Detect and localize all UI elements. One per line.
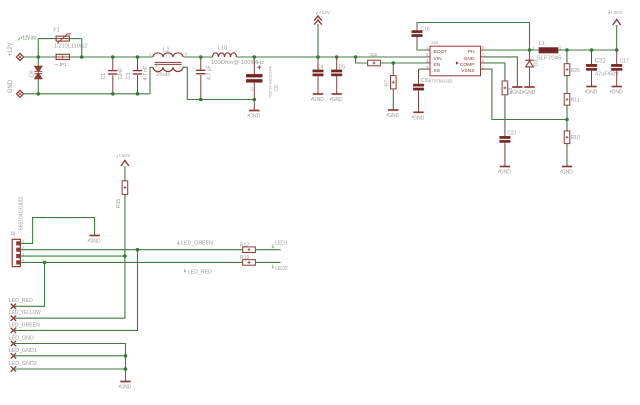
wire GND rail	[24, 93, 150, 95]
diode D3 catch	[525, 50, 539, 87]
svg-text:4.7 nF: 4.7 nF	[143, 66, 149, 81]
svg-text:GND: GND	[89, 239, 101, 245]
capacitor C5	[331, 57, 345, 94]
wire R26 to R11	[566, 76, 568, 94]
wire LED_RED branch	[13, 262, 44, 306]
svg-text:PH: PH	[468, 49, 475, 55]
ground C10	[412, 112, 425, 121]
wire fuse branch left leg	[38, 39, 56, 57]
junction C2 bottom	[199, 98, 203, 102]
junction C1 bottom	[111, 92, 115, 96]
svg-text:R10: R10	[571, 135, 580, 141]
IC U3 TPS54231D buck regulator	[426, 40, 486, 84]
capacitor C2 4.7uF	[196, 57, 212, 100]
no-connect LED_GREEN	[9, 323, 40, 334]
svg-text:C22: C22	[595, 58, 607, 64]
ground C21	[498, 167, 511, 176]
svg-text:GND: GND	[249, 114, 261, 120]
svg-text:C3: C3	[126, 73, 132, 80]
svg-text:EN: EN	[434, 62, 441, 68]
wire R4 to EN pin	[380, 62, 425, 64]
svg-text:LED_YELLOW: LED_YELLOW	[9, 310, 42, 316]
svg-text:C5: C5	[339, 64, 346, 70]
wire SS pin to C10	[419, 68, 426, 70]
net label LED_GREEN	[177, 241, 213, 247]
junction C17 top	[615, 48, 619, 52]
svg-text:L2: L2	[163, 48, 169, 54]
ground J2 pin1	[88, 236, 101, 245]
svg-text:100Ohm@ 100 MHz: 100Ohm@ 100 MHz	[211, 60, 264, 66]
svg-text:GND: GND	[524, 90, 536, 96]
resistor R15	[116, 181, 128, 256]
capacitor C1 22nF	[101, 57, 124, 94]
svg-text:GND: GND	[612, 90, 624, 96]
svg-text:22nF: 22nF	[118, 68, 124, 80]
wire LED_GREEN branch	[13, 250, 137, 331]
wire LED_GND row	[13, 344, 125, 382]
svg-text:SS: SS	[434, 68, 441, 74]
resistor R26	[564, 50, 580, 76]
supply +3V3 arrow pullup	[117, 153, 130, 181]
wire PH to L1	[485, 49, 539, 51]
junction LED_RED branch	[43, 261, 47, 265]
resistor R11	[564, 93, 580, 119]
junction D9 bottom	[37, 92, 41, 96]
svg-text:D9: D9	[29, 70, 35, 77]
ground C6	[248, 111, 261, 120]
junction C4 top	[316, 55, 320, 59]
svg-text:LED_GND: LED_GND	[9, 336, 34, 342]
svg-text:LED_GND2: LED_GND2	[9, 361, 37, 367]
junction fuse right	[80, 55, 84, 59]
net label +12V int	[18, 36, 36, 42]
svg-text:GND: GND	[586, 90, 598, 96]
resistor R8	[502, 81, 514, 136]
junction R15 node	[123, 254, 127, 258]
no-connect LED_GND1	[9, 348, 37, 359]
wire VSNS feedback	[485, 69, 567, 119]
ground R7	[387, 110, 400, 119]
wire COMP pin to R8	[485, 63, 505, 81]
svg-text:LED_RED: LED_RED	[9, 298, 33, 304]
svg-text:25uH: 25uH	[156, 72, 170, 78]
wire LED_GND1 row	[13, 355, 125, 357]
svg-text:R7: R7	[384, 80, 390, 87]
wire ground return	[187, 99, 254, 101]
svg-text:BOOT: BOOT	[434, 49, 448, 55]
junction C6 return	[253, 98, 257, 102]
junction LED_GND1	[124, 354, 128, 358]
svg-text:U3: U3	[432, 40, 438, 46]
resistor R4	[368, 53, 381, 66]
wire LED_GND2 row	[13, 368, 125, 370]
svg-text:LED_GREEN: LED_GREEN	[9, 323, 40, 329]
svg-text:R8: R8	[508, 87, 514, 94]
capacitor C6 tantalum	[246, 57, 279, 111]
transient diode D9	[29, 57, 42, 94]
junction C5 top	[335, 55, 339, 59]
wire L2 pin3 down to return	[183, 67, 187, 99]
svg-text:GND: GND	[413, 116, 425, 122]
wire LED_GREEN row	[20, 249, 242, 251]
wire J2 pin3 row	[20, 255, 125, 257]
ground IC GND pin	[511, 87, 524, 96]
ground C4	[311, 94, 324, 103]
svg-text:— JP1: — JP1	[54, 62, 66, 67]
net flag LED2	[272, 264, 288, 271]
svg-text:GND: GND	[500, 170, 512, 176]
resistor R17	[240, 242, 255, 252]
wire rail L10 to IC	[237, 56, 426, 58]
wire LED_YELLOW branch	[13, 256, 125, 318]
wire fuse branch right leg	[69, 39, 81, 57]
no-connect LED_GND2	[9, 361, 37, 372]
no-connect LED_YELLOW	[9, 310, 42, 321]
svg-text:LED_GREEN: LED_GREEN	[181, 241, 213, 247]
junction C6 top	[253, 55, 257, 59]
inductor L10 ferrite bead	[211, 45, 264, 66]
no-connect LED_RED	[9, 298, 33, 309]
junction C1 top	[111, 55, 115, 59]
svg-text:LED2: LED2	[275, 266, 288, 272]
svg-text:C17: C17	[620, 58, 629, 64]
svg-text:T520 SF M020C004D: T520 SF M020C004D	[267, 66, 272, 98]
junction output R26	[565, 48, 569, 52]
svg-text:+3V3: +3V3	[610, 10, 622, 16]
ground C17	[610, 87, 623, 96]
wire +12V rail left	[24, 56, 57, 58]
svg-text:R17: R17	[240, 242, 250, 248]
svg-text:R19: R19	[240, 255, 250, 261]
svg-text:VIN: VIN	[434, 56, 443, 62]
svg-text:+3V3: +3V3	[119, 153, 131, 159]
capacitor C3 4.7nF	[126, 57, 149, 94]
svg-text:R15: R15	[116, 199, 122, 208]
node +12V input pin	[8, 42, 24, 60]
capacitor C16 boot	[412, 26, 430, 44]
svg-text:GND: GND	[8, 79, 14, 93]
junction EN branch	[354, 55, 358, 59]
connector J2 665104131822	[11, 197, 25, 267]
svg-text:GND: GND	[313, 97, 325, 103]
svg-text:C1: C1	[101, 73, 107, 80]
svg-text:C21: C21	[507, 131, 516, 137]
svg-text:LED1: LED1	[275, 240, 288, 246]
resistor R7	[384, 63, 396, 110]
svg-text:GND: GND	[332, 97, 344, 103]
svg-text:4.7 µF: 4.7 µF	[206, 65, 212, 80]
resistor R10	[564, 120, 580, 167]
ground D3	[523, 87, 536, 96]
svg-text:J2: J2	[11, 231, 17, 237]
svg-text:L10: L10	[218, 45, 228, 51]
svg-text:LED_GND1: LED_GND1	[9, 348, 37, 354]
wire R19 to LED2	[255, 261, 280, 263]
svg-text:GND: GND	[120, 385, 132, 391]
svg-text:47uF/50V: 47uF/50V	[595, 72, 619, 78]
fuse F1 PTC 1.210L110/12	[53, 27, 87, 49]
junction feedback node	[565, 118, 569, 122]
svg-text:C6: C6	[274, 85, 280, 92]
resistor R19	[240, 255, 255, 265]
svg-text:GND: GND	[464, 56, 475, 62]
junction LED_GREEN branch	[136, 248, 140, 252]
svg-text:+12V int: +12V int	[20, 36, 36, 42]
svg-text:SLF7045: SLF7045	[537, 55, 562, 61]
ground R10	[560, 167, 573, 176]
svg-text:665104131822: 665104131822	[18, 197, 24, 230]
wire EN branch	[356, 57, 368, 63]
wire R17 to LED1	[255, 249, 280, 251]
svg-text:COMP: COMP	[460, 62, 475, 68]
junction C3 top	[136, 55, 140, 59]
junction C2 top	[199, 55, 203, 59]
inductor L2 25uH common-mode choke	[149, 48, 188, 78]
svg-text:C10: C10	[421, 78, 430, 84]
wire L2 pin2 to GND rail	[150, 67, 153, 94]
ground LED_GND	[119, 382, 132, 391]
supply +3V3 arrow output	[609, 10, 622, 50]
node GND input pin	[8, 79, 24, 97]
svg-text:1.210L110/12: 1.210L110/12	[54, 44, 88, 50]
inductor L1 SLF7045	[532, 41, 562, 61]
svg-text:R11: R11	[571, 98, 580, 104]
net flag LED1	[272, 240, 288, 248]
net label LED_RED	[184, 268, 212, 275]
svg-text:R4: R4	[370, 53, 377, 59]
junction C22 top	[590, 48, 594, 52]
svg-text:+12V: +12V	[319, 10, 331, 16]
svg-text:LED_RED: LED_RED	[188, 269, 212, 275]
supply +12V arrow	[314, 10, 331, 57]
junction fuse left	[37, 55, 41, 59]
wire C16 to PH node	[417, 23, 530, 51]
junction C3 bottom	[136, 92, 140, 96]
wire C16 to BOOT pin	[417, 44, 426, 50]
wire +12V rail mid	[69, 56, 152, 58]
junction PH node	[528, 48, 532, 52]
svg-text:C16: C16	[421, 27, 430, 33]
capacitor C22 47uF/50V	[586, 50, 619, 87]
capacitor C10 soft-start	[413, 69, 430, 112]
svg-text:GND: GND	[388, 113, 400, 119]
ground C22	[585, 87, 598, 96]
capacitor C17	[611, 50, 629, 87]
svg-text:R26: R26	[571, 68, 580, 74]
no-connect LED_GND	[9, 336, 34, 347]
wire LED_RED row	[20, 261, 242, 263]
svg-text:F1: F1	[53, 27, 60, 33]
svg-text:L1: L1	[539, 41, 545, 47]
capacitor C4	[313, 57, 324, 94]
svg-text:C4: C4	[317, 64, 324, 70]
svg-text:+12V: +12V	[8, 42, 14, 56]
svg-text:GND: GND	[562, 170, 574, 176]
svg-text:TPS54231D: TPS54231D	[431, 78, 452, 84]
junction R7 top	[392, 61, 396, 65]
jumper JP1 on rail	[54, 54, 69, 67]
capacitor C21	[500, 131, 517, 167]
wire rail L2 to L10	[184, 56, 213, 58]
junction LED_GND2	[124, 367, 128, 371]
wire output rail	[558, 49, 617, 51]
svg-text:VSNS: VSNS	[461, 68, 475, 74]
wire IC GND pin to ground	[485, 57, 517, 87]
wire J2 pin1 to ground	[20, 218, 94, 244]
ground C5	[330, 94, 343, 103]
